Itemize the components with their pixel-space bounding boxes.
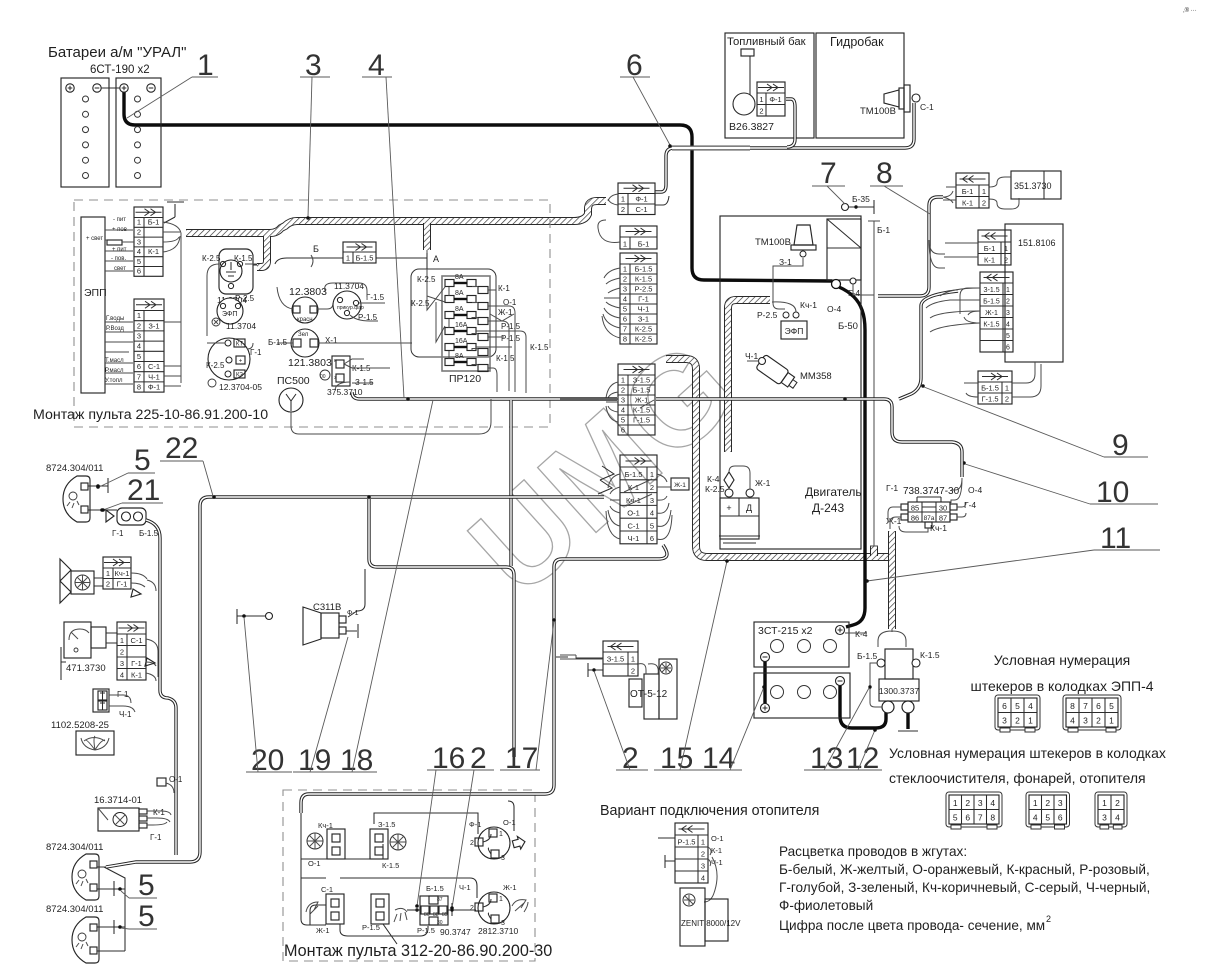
svg-text:Г.воды: Г.воды xyxy=(106,316,124,322)
svg-text:3: 3 xyxy=(1006,310,1010,317)
wiper motor 1102.5208-25 xyxy=(51,689,135,755)
sensor ТМ100В engine xyxy=(755,225,816,309)
grid ЭПП-4 8pin xyxy=(1063,695,1121,732)
component ЭФП xyxy=(757,300,817,339)
svg-text:8: 8 xyxy=(1070,701,1075,711)
svg-text:11.3704: 11.3704 xyxy=(226,321,256,331)
svg-text:1: 1 xyxy=(759,95,763,104)
svg-text:Р-2.5: Р-2.5 xyxy=(235,294,255,303)
svg-text:6СТ-190 х2: 6СТ-190 х2 xyxy=(90,64,150,76)
box 351.3730 xyxy=(989,171,1061,209)
connector heater rear Б-1.5/Г-1.5 xyxy=(978,371,1012,404)
wires heater rear connector xyxy=(964,362,1041,397)
grid ЭПП-4 6pin xyxy=(995,695,1040,732)
svg-text:3СТ-215 х2: 3СТ-215 х2 xyxy=(758,625,813,637)
svg-text:КТ: КТ xyxy=(236,342,243,348)
svg-text:Батареи а/м "УРАЛ": Батареи а/м "УРАЛ" xyxy=(48,44,186,61)
svg-text:3: 3 xyxy=(978,798,983,808)
svg-text:ТМ100В: ТМ100В xyxy=(860,106,896,117)
svg-text:С-1: С-1 xyxy=(148,362,160,371)
svg-text:1: 1 xyxy=(982,187,986,196)
svg-text:Б-1.5: Б-1.5 xyxy=(139,529,159,538)
svg-text:Г-голубой, З-зеленый, Кч-корич: Г-голубой, З-зеленый, Кч-коричневый, С-с… xyxy=(779,880,1150,895)
svg-text:2: 2 xyxy=(1046,914,1051,924)
svg-text:6: 6 xyxy=(650,534,654,543)
wire 6pin lower bundle down to pult312 xyxy=(301,545,667,813)
svg-text:1: 1 xyxy=(953,798,958,808)
svg-text:Монтаж пульта 312-20-86.90.200: Монтаж пульта 312-20-86.90.200-30 xyxy=(284,942,552,960)
svg-text:5: 5 xyxy=(621,415,625,424)
svg-text:5: 5 xyxy=(137,352,141,361)
svg-text:Р-1.5: Р-1.5 xyxy=(501,334,521,343)
svg-text:4: 4 xyxy=(621,405,625,414)
svg-text:5: 5 xyxy=(137,257,141,266)
svg-text:8: 8 xyxy=(876,157,893,190)
wires verticals ПР120 to pult312 xyxy=(509,400,512,566)
svg-text:Р-2.5: Р-2.5 xyxy=(635,284,653,293)
svg-text:Кч-1: Кч-1 xyxy=(115,569,130,578)
wires fan connector to bundle xyxy=(131,573,156,591)
svg-text:22: 22 xyxy=(165,432,198,465)
svg-text:Кч-1: Кч-1 xyxy=(318,821,333,830)
svg-text:Г-1.5: Г-1.5 xyxy=(366,293,385,302)
svg-text:Г-1.5: Г-1.5 xyxy=(633,415,650,424)
svg-text:К-1: К-1 xyxy=(148,247,159,256)
svg-text:+ свет: + свет xyxy=(86,236,103,242)
svg-text:2: 2 xyxy=(137,228,141,237)
svg-text:Б-1: Б-1 xyxy=(877,225,890,235)
pult312 gauge switch xyxy=(306,885,344,935)
svg-text:3: 3 xyxy=(621,395,625,404)
wire tank sensor drop xyxy=(786,99,795,147)
svg-text:00: 00 xyxy=(320,374,326,380)
svg-text:2: 2 xyxy=(1004,255,1008,264)
svg-text:С-1: С-1 xyxy=(130,636,142,645)
fuse 16А / output Р-1.5 xyxy=(445,328,454,335)
svg-text:ЭПП: ЭПП xyxy=(84,287,107,299)
connector lamp 351.3730 xyxy=(956,173,989,208)
svg-text:1: 1 xyxy=(621,375,625,384)
svg-text:1: 1 xyxy=(1033,798,1038,808)
svg-text:О-1: О-1 xyxy=(627,509,640,518)
turn flasher repeater xyxy=(102,508,159,538)
svg-text:16А: 16А xyxy=(455,322,468,329)
headlight top xyxy=(63,476,90,522)
grid wiper 8pin xyxy=(946,792,1002,829)
svg-text:4: 4 xyxy=(1070,715,1075,725)
svg-text:С-1: С-1 xyxy=(321,885,333,894)
svg-text:К-1.5: К-1.5 xyxy=(496,354,515,363)
svg-text:ZENIT 8000/12V: ZENIT 8000/12V xyxy=(681,919,741,928)
connector gauge 471.3730 xyxy=(117,622,146,680)
svg-text:5: 5 xyxy=(650,521,654,530)
svg-text:О-4: О-4 xyxy=(968,485,982,495)
svg-text:Г-1: Г-1 xyxy=(112,529,124,538)
svg-text:1: 1 xyxy=(137,311,141,320)
svg-text:2: 2 xyxy=(965,798,970,808)
wires ПР120 outputs down xyxy=(476,290,526,393)
svg-text:121.3803: 121.3803 xyxy=(288,357,332,369)
wire ПС500 to bus xyxy=(291,399,491,434)
wires fan 8-pin connector to harness xyxy=(602,268,620,338)
svg-text:Гидробак: Гидробак xyxy=(830,35,884,49)
svg-text:Ч-1: Ч-1 xyxy=(638,304,650,313)
svg-text:1: 1 xyxy=(346,253,350,262)
connector fuel-tank sensor Ф-1 xyxy=(757,82,785,116)
svg-text:К-1: К-1 xyxy=(153,808,165,817)
wire horn Ф-1 drop xyxy=(348,569,365,617)
fuse 16А / output Р-1.5 xyxy=(445,344,454,351)
pult312 washer switch xyxy=(362,894,407,932)
connector 8-pin dashboard xyxy=(620,253,657,344)
svg-text:Г-1: Г-1 xyxy=(886,483,898,493)
svg-text:4: 4 xyxy=(701,873,705,882)
svg-text:З-1.5: З-1.5 xyxy=(633,375,650,384)
svg-text:87: 87 xyxy=(437,897,443,903)
svg-text:2: 2 xyxy=(759,106,763,115)
svg-text:8А: 8А xyxy=(455,353,464,360)
harness band drop A to PR120 xyxy=(423,223,431,250)
connector 6-pin lower mirrored xyxy=(620,455,657,544)
svg-text:Р-1.5: Р-1.5 xyxy=(501,322,521,331)
svg-text:Ж-1: Ж-1 xyxy=(985,310,998,317)
svg-text:А: А xyxy=(433,254,439,264)
wire from harness hook to 11.3704 xyxy=(253,258,287,265)
svg-text:К-2.5: К-2.5 xyxy=(705,484,725,494)
svg-text:Б-1.5: Б-1.5 xyxy=(356,253,374,262)
horn C311В xyxy=(303,602,359,645)
svg-text:ЭФП: ЭФП xyxy=(222,311,237,318)
svg-text:6: 6 xyxy=(1002,701,1007,711)
svg-text:1: 1 xyxy=(623,239,627,248)
svg-text:КЗ: КЗ xyxy=(236,373,243,379)
svg-text:Ч-1: Ч-1 xyxy=(119,710,132,719)
ignition switch 12.3704-05 xyxy=(206,338,262,392)
svg-text:738.3747-30: 738.3747-30 xyxy=(903,486,960,497)
wires 151.8106 lower connector fan xyxy=(960,288,980,323)
svg-text:Ф-1: Ф-1 xyxy=(469,820,481,829)
svg-text:стеклоочистителя, фонарей, ото: стеклоочистителя, фонарей, отопителя xyxy=(889,770,1146,786)
wire long bus y399 xyxy=(352,392,962,477)
switch 121.3803 xyxy=(268,329,412,369)
ground relay 1300 xyxy=(906,710,909,729)
svg-text:12.3803: 12.3803 xyxy=(289,286,327,298)
dashed box Монтаж пульта 312 xyxy=(283,790,535,961)
svg-text:30: 30 xyxy=(437,920,443,926)
svg-text:5: 5 xyxy=(1045,812,1050,822)
svg-text:К-2.5: К-2.5 xyxy=(417,275,436,284)
wire flasher down xyxy=(146,520,176,855)
box 151.8106 xyxy=(1005,224,1063,362)
svg-text:4: 4 xyxy=(623,294,627,303)
svg-text:Двигатель: Двигатель xyxy=(805,485,862,499)
heater ОТ-5-12 xyxy=(560,655,677,719)
svg-text:Р-1.5: Р-1.5 xyxy=(362,923,380,932)
svg-text:8724.304/011: 8724.304/011 xyxy=(46,463,103,474)
svg-text:6: 6 xyxy=(623,314,627,323)
svg-text:К-2.5: К-2.5 xyxy=(202,254,221,263)
svg-text:Б-1.5: Б-1.5 xyxy=(983,298,1000,305)
svg-text:1: 1 xyxy=(1028,715,1033,725)
wires headlight middle xyxy=(97,867,125,940)
svg-text:ОТ-5-12: ОТ-5-12 xyxy=(630,689,668,700)
svg-text:З-1.5: З-1.5 xyxy=(607,654,624,663)
svg-text:Ф-1: Ф-1 xyxy=(635,194,647,203)
grid lamp 6pin xyxy=(1026,792,1070,829)
svg-text:3: 3 xyxy=(120,659,124,668)
svg-text:5: 5 xyxy=(1015,701,1020,711)
svg-text:2: 2 xyxy=(470,905,474,912)
svg-text:+: + xyxy=(726,503,731,513)
svg-text:8: 8 xyxy=(137,383,141,392)
svg-text:ЭФП: ЭФП xyxy=(785,326,804,336)
svg-text:3: 3 xyxy=(137,237,141,246)
starter relay ПС500 xyxy=(277,375,310,412)
svg-text:4: 4 xyxy=(137,342,141,351)
svg-text:3: 3 xyxy=(701,861,705,870)
battery УРАЛ block 1 xyxy=(61,78,109,187)
svg-text:2: 2 xyxy=(1096,715,1101,725)
svg-text:Г-1: Г-1 xyxy=(250,348,262,357)
svg-text:2: 2 xyxy=(982,198,986,207)
svg-text:З-1: З-1 xyxy=(148,321,159,330)
svg-text:С-1: С-1 xyxy=(920,102,934,112)
svg-text:Условная нумерация: Условная нумерация xyxy=(994,652,1130,668)
svg-text:К-1.5: К-1.5 xyxy=(530,343,549,352)
svg-text:4: 4 xyxy=(990,798,995,808)
pult312 switch Ф-1/О-1 round xyxy=(469,818,527,862)
svg-text:Г-4: Г-4 xyxy=(848,288,860,298)
svg-text:8: 8 xyxy=(623,334,627,343)
svg-text:Б-1.5: Б-1.5 xyxy=(633,385,651,394)
svg-text:375.3710: 375.3710 xyxy=(327,387,363,397)
connector Б-1.5 inline xyxy=(343,242,376,263)
headlight bottom xyxy=(72,917,99,963)
svg-text:Ч-1: Ч-1 xyxy=(628,534,640,543)
svg-text:1: 1 xyxy=(650,470,654,479)
svg-text:Ф-1: Ф-1 xyxy=(769,95,781,104)
svg-text:5: 5 xyxy=(1109,701,1114,711)
harness band drop to 11.3704 xyxy=(257,236,267,267)
fuse box ПР120 xyxy=(411,250,549,393)
svg-text:2: 2 xyxy=(701,849,705,858)
svg-text:16А: 16А xyxy=(455,338,468,345)
svg-text:6: 6 xyxy=(1006,344,1010,351)
svg-text:ПР120: ПР120 xyxy=(449,373,481,385)
svg-text:В26.3827: В26.3827 xyxy=(729,121,774,133)
svg-text:+ пит: + пит xyxy=(112,247,127,253)
svg-text:4: 4 xyxy=(1115,812,1120,822)
svg-text:Б-1: Б-1 xyxy=(984,244,996,253)
starter +Д block xyxy=(705,466,771,543)
pult312 internal wiring xyxy=(301,801,514,944)
svg-text:5: 5 xyxy=(1006,333,1010,340)
legend Расцветка проводов xyxy=(779,844,1150,933)
svg-text:Г-1: Г-1 xyxy=(638,294,649,303)
svg-text:К-1: К-1 xyxy=(498,284,510,293)
connector ОТ-5-12 heater xyxy=(603,641,638,676)
svg-text:30: 30 xyxy=(939,504,947,513)
svg-text:Ф-1: Ф-1 xyxy=(347,610,359,617)
svg-text:87: 87 xyxy=(939,514,947,523)
svg-text:ТМ100В: ТМ100В xyxy=(755,237,791,248)
svg-text:7: 7 xyxy=(1083,701,1088,711)
node Б-35 xyxy=(842,194,875,214)
svg-text:6: 6 xyxy=(137,267,141,276)
svg-text:К-1: К-1 xyxy=(711,846,722,855)
arrows near 6-pin lower connector xyxy=(598,466,614,494)
svg-text:3: 3 xyxy=(501,855,505,862)
svg-text:1: 1 xyxy=(1005,383,1009,392)
svg-text:8А: 8А xyxy=(455,290,464,297)
svg-text:Вариант подключения отопителя: Вариант подключения отопителя xyxy=(600,803,819,819)
pult312 switch 2812.3710 xyxy=(470,883,528,936)
svg-text:ММ358: ММ358 xyxy=(800,371,832,382)
wire bus into middle connector xyxy=(560,398,618,400)
svg-text:471.3730: 471.3730 xyxy=(66,663,106,674)
svg-text:Б-1.5: Б-1.5 xyxy=(426,884,444,893)
svg-text:2: 2 xyxy=(137,321,141,330)
labels ЭПП lower pins xyxy=(105,316,124,384)
svg-text:Б-1.5: Б-1.5 xyxy=(635,264,653,273)
svg-text:Топливный бак: Топливный бак xyxy=(727,36,806,48)
svg-text:6: 6 xyxy=(1058,812,1063,822)
battery УРАЛ block 2 xyxy=(101,78,161,187)
svg-text:Д: Д xyxy=(746,503,752,513)
wire 22 main run to headlights xyxy=(106,497,604,867)
wire Б line xyxy=(287,257,427,259)
svg-text:Г-1.5: Г-1.5 xyxy=(982,394,999,403)
wires ЭПП fan to harness xyxy=(105,222,181,386)
svg-text:4: 4 xyxy=(120,670,124,679)
svg-text:2: 2 xyxy=(1015,715,1020,725)
svg-text:Ф-фиолетовый: Ф-фиолетовый xyxy=(779,898,873,913)
heater ZENIT 8000/12V xyxy=(680,888,741,946)
svg-text:86: 86 xyxy=(424,912,430,918)
svg-text:1: 1 xyxy=(499,831,503,838)
svg-text:86: 86 xyxy=(911,514,919,523)
wires headlight top xyxy=(88,478,108,510)
svg-text:К-1.5: К-1.5 xyxy=(635,274,652,283)
wires fan Ф-1/С-1 connector left xyxy=(608,194,618,205)
connector 6-pin middle xyxy=(618,364,655,435)
svg-text:1: 1 xyxy=(1006,287,1010,294)
svg-text:7: 7 xyxy=(978,812,983,822)
svg-text:С-1: С-1 xyxy=(635,205,647,214)
box ЭПП xyxy=(81,217,105,393)
svg-text:прикур.фар: прикур.фар xyxy=(337,305,364,311)
svg-text:8А: 8А xyxy=(455,274,464,281)
svg-text:К-4: К-4 xyxy=(707,474,720,484)
svg-text:2: 2 xyxy=(1005,394,1009,403)
wires gauge connector to bundle xyxy=(146,639,158,681)
svg-text:Условная нумерация штекеров в: Условная нумерация штекеров в колодках xyxy=(889,745,1166,761)
svg-text:З-1.5: З-1.5 xyxy=(983,287,999,294)
svg-text:О-4: О-4 xyxy=(827,304,841,314)
svg-text:Г-1: Г-1 xyxy=(131,659,142,668)
wire thick battery cable to starter xyxy=(124,91,832,281)
connector 151.8106 lower 6-pin xyxy=(980,272,1013,352)
svg-text:5: 5 xyxy=(138,869,155,902)
svg-text:16.3714-01: 16.3714-01 xyxy=(94,795,142,806)
svg-text:6: 6 xyxy=(137,362,141,371)
wires 6-pin lower right side xyxy=(657,474,672,540)
svg-text:Б-1: Б-1 xyxy=(638,239,650,248)
svg-text:К-2.5: К-2.5 xyxy=(635,324,652,333)
svg-text:3: 3 xyxy=(650,496,654,505)
svg-text:2: 2 xyxy=(470,840,474,847)
wire thick Б-50 starter to battery xyxy=(839,287,865,627)
svg-text:7: 7 xyxy=(623,324,627,333)
svg-text:5: 5 xyxy=(138,900,155,933)
svg-text:З-1: З-1 xyxy=(638,314,649,323)
lamp 16.3714-01 xyxy=(94,795,171,842)
svg-text:6: 6 xyxy=(621,425,625,434)
svg-text:Ж-1: Ж-1 xyxy=(316,926,330,935)
connector lamp 151.8106 upper xyxy=(978,230,1011,265)
svg-text:3: 3 xyxy=(1002,715,1007,725)
harness band engine left / bottom xyxy=(666,359,888,557)
box Двигатель Д-243 xyxy=(720,216,861,549)
svg-text:,® ···: ,® ··· xyxy=(1183,7,1197,14)
pult312 fan switch xyxy=(307,821,345,868)
labels ЭПП upper pins xyxy=(86,217,127,272)
svg-text:5: 5 xyxy=(134,444,151,477)
lamp socket 11.3704 right xyxy=(325,281,385,322)
svg-text:Кч-1: Кч-1 xyxy=(930,523,947,533)
wires fan Б-1 connector left xyxy=(598,220,620,242)
switch 375.3710 xyxy=(320,356,390,397)
harness band pult225 top xyxy=(186,201,606,233)
harness band engine inner xyxy=(728,300,770,452)
svg-text:2812.3710: 2812.3710 xyxy=(478,926,518,936)
svg-text:1: 1 xyxy=(623,264,627,273)
svg-text:21: 21 xyxy=(127,474,160,507)
svg-text:Ч-1: Ч-1 xyxy=(459,883,471,892)
svg-text:Цифра после цвета провода- сеч: Цифра после цвета провода- сечение, мм xyxy=(779,918,1045,933)
svg-text:Ж-1: Ж-1 xyxy=(674,482,686,489)
relay 90.3747 xyxy=(407,883,471,937)
svg-text:Д-243: Д-243 xyxy=(812,501,844,515)
svg-text:Ж-1: Ж-1 xyxy=(755,478,771,488)
svg-text:К-1: К-1 xyxy=(984,255,995,264)
svg-text:7: 7 xyxy=(820,157,837,190)
svg-text:87а: 87а xyxy=(924,515,935,522)
starter box xyxy=(827,219,874,332)
svg-text:2: 2 xyxy=(631,666,635,675)
svg-text:90.3747: 90.3747 xyxy=(440,927,471,937)
dashed box Монтаж пульта 225 xyxy=(74,200,550,427)
switch 11.3704 (mass switch) xyxy=(202,249,257,336)
wire C311B / pult312 feed xyxy=(369,499,514,757)
svg-text:5: 5 xyxy=(623,304,627,313)
wire right bundle down xyxy=(899,291,958,399)
fuse 8А / output Ж-1 xyxy=(445,312,454,319)
svg-text:1: 1 xyxy=(631,654,635,663)
svg-text:3: 3 xyxy=(1102,812,1107,822)
relay 738.3747-30 xyxy=(886,483,982,533)
svg-text:З-1.5: З-1.5 xyxy=(378,820,395,829)
svg-text:ПС500: ПС500 xyxy=(277,375,310,387)
connector ЭПП lower xyxy=(134,299,164,392)
grid heater 4pin xyxy=(1095,792,1127,829)
harness band stub near engine bottom xyxy=(870,546,878,556)
fuse 8А / output К-1.5 xyxy=(445,359,454,366)
wire Ф-1/С-1 fuel+hydro run xyxy=(655,103,914,192)
svg-text:штекеров в колодках ЭПП-4: штекеров в колодках ЭПП-4 xyxy=(970,678,1153,694)
connector Ф-1/С-1 (fuel gauge line) xyxy=(618,183,655,215)
svg-text:К-1.5: К-1.5 xyxy=(920,650,940,660)
